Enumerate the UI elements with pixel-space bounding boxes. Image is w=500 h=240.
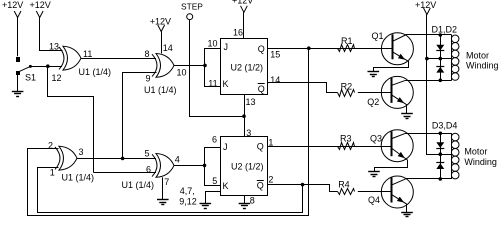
- svg-text:5: 5: [145, 148, 150, 158]
- node A junction: [46, 64, 50, 68]
- svg-text:STEP: STEP: [181, 2, 203, 12]
- svg-text:2: 2: [268, 175, 273, 185]
- wire Q3 collector: [406, 133, 452, 135]
- svg-text:3: 3: [79, 147, 84, 157]
- node junction U2 J/K 1: [203, 64, 207, 68]
- wire: [205, 166, 221, 186]
- wire: [77, 158, 156, 160]
- resistor R1: [338, 45, 355, 52]
- svg-text:4: 4: [175, 155, 180, 165]
- flip-flop U2 (1/2) first half: [221, 39, 268, 95]
- wire: [174, 65, 205, 67]
- svg-text:16: 16: [233, 28, 243, 38]
- svg-text:U1 (1/4): U1 (1/4): [122, 180, 155, 190]
- ground (U2 pins 4,7,9,12): [206, 192, 221, 204]
- svg-text:U1 (1/4): U1 (1/4): [79, 67, 112, 77]
- wire: [358, 48, 392, 50]
- wire feedback Q2bar to gate pin 1: [38, 168, 303, 213]
- svg-text:Q4: Q4: [368, 195, 380, 205]
- svg-text:U2 (1/2): U2 (1/2): [231, 62, 264, 72]
- wire: [243, 12, 245, 38]
- svg-text:Q: Q: [257, 141, 264, 151]
- wire: [358, 146, 392, 148]
- node junctions diode col 2: [439, 132, 443, 136]
- node junction winding1 tap: [425, 57, 429, 61]
- wire: [205, 148, 221, 166]
- resistor R3: [338, 143, 355, 150]
- svg-text:R2: R2: [341, 81, 353, 91]
- svg-text:10: 10: [177, 67, 187, 77]
- wire: [174, 165, 205, 167]
- svg-text:Winding: Winding: [464, 157, 497, 167]
- svg-text:K: K: [223, 79, 229, 89]
- ground (Q1): [368, 71, 380, 73]
- node junction gate3 out: [121, 157, 125, 161]
- svg-text:U1 (1/4): U1 (1/4): [144, 85, 177, 95]
- svg-text:U1 (1/4): U1 (1/4): [62, 173, 95, 183]
- ground (Q4): [401, 212, 413, 214]
- wire Qbar pin2 line: [268, 185, 338, 192]
- xor gate U1 (1/4) pins 13,12 out 11: [63, 46, 81, 70]
- svg-text:11: 11: [208, 78, 217, 88]
- motor winding 2 coil: [451, 133, 453, 179]
- wire Q2 emitter to ground: [406, 105, 408, 114]
- wire: [427, 15, 452, 155]
- wire: [30, 66, 47, 68]
- svg-text:7: 7: [164, 177, 169, 187]
- resistor R4: [338, 189, 355, 195]
- svg-text:D1,D2: D1,D2: [432, 25, 458, 35]
- svg-text:14: 14: [270, 75, 280, 85]
- wire feedback Q1 to gate pin 2: [28, 49, 309, 216]
- xor gate U1 (1/4) pins 8,9 out 10: [156, 54, 174, 78]
- wire: [358, 191, 392, 193]
- resistor R2: [338, 90, 355, 97]
- svg-text:Q: Q: [258, 44, 265, 54]
- svg-text:9: 9: [146, 74, 151, 84]
- svg-text:14: 14: [163, 43, 173, 53]
- wire pin 13 to pin 3: [244, 95, 246, 137]
- wire: [94, 172, 157, 174]
- wire: [205, 49, 221, 66]
- svg-text:R1: R1: [341, 36, 353, 46]
- diode D1: [436, 45, 444, 51]
- svg-text:+12V: +12V: [415, 0, 436, 10]
- wire: [48, 66, 62, 68]
- svg-text:R4: R4: [338, 179, 350, 189]
- svg-text:Q: Q: [257, 181, 264, 191]
- svg-text:+12V: +12V: [2, 0, 23, 10]
- diode D3: [436, 142, 444, 148]
- svg-text:J: J: [223, 142, 228, 152]
- wire: [205, 66, 221, 87]
- wire winding1 tap: [427, 58, 452, 60]
- xor gate U1 (1/4) pins 5,6 out 4: [156, 154, 174, 178]
- svg-text:1: 1: [50, 168, 55, 178]
- wire Q4 collector: [406, 178, 452, 180]
- wire: [40, 18, 63, 51]
- svg-text:10: 10: [208, 39, 218, 49]
- diode D4: [436, 162, 444, 164]
- wire diode column 2: [440, 133, 442, 179]
- ground (Q2): [401, 113, 413, 115]
- svg-text:11: 11: [83, 49, 92, 59]
- wire Q4 emitter to ground: [406, 204, 408, 212]
- svg-text:Q2: Q2: [367, 97, 379, 107]
- motor winding 1 coil: [451, 35, 453, 80]
- svg-text:U2 (1/2): U2 (1/2): [231, 161, 264, 171]
- wire: [123, 73, 157, 159]
- svg-text:9,12: 9,12: [179, 196, 197, 206]
- wire: [190, 20, 245, 117]
- svg-text:+12V: +12V: [30, 0, 51, 10]
- wire Q1 collector: [406, 34, 452, 36]
- node junctions diode col 1: [439, 33, 443, 37]
- svg-text:S1: S1: [25, 73, 36, 83]
- svg-text:Winding: Winding: [466, 61, 499, 71]
- svg-text:R3: R3: [340, 133, 352, 143]
- svg-text:Q: Q: [258, 84, 265, 94]
- node junction feedback Q1: [307, 46, 311, 50]
- ground (S1): [17, 75, 19, 92]
- svg-text:+12V: +12V: [232, 0, 253, 5]
- svg-text:8: 8: [145, 49, 150, 59]
- svg-text:Q1: Q1: [372, 31, 384, 41]
- svg-text:5: 5: [212, 176, 217, 186]
- svg-text:8: 8: [250, 195, 255, 205]
- wire: [161, 32, 163, 54]
- xor gate U1 (1/4) pins 2,1 out 3: [59, 146, 77, 170]
- svg-text:12: 12: [52, 73, 62, 83]
- wire diode column 1: [440, 35, 442, 80]
- node junction U2 J/K 2: [203, 164, 207, 168]
- svg-text:Motor: Motor: [466, 50, 489, 60]
- node junction clock: [242, 114, 246, 118]
- svg-text:4,7,: 4,7,: [180, 186, 195, 196]
- wire: [81, 58, 156, 60]
- wire Q pin15 line: [268, 48, 393, 50]
- wire Qbar pin14 line: [268, 83, 338, 93]
- svg-text:Motor: Motor: [464, 146, 487, 156]
- svg-text:6: 6: [212, 134, 217, 144]
- svg-text:6: 6: [146, 165, 151, 175]
- svg-text:3: 3: [246, 128, 251, 138]
- ground (U1 pin 7): [162, 177, 164, 199]
- node junction feedback Q2bar: [301, 183, 305, 187]
- svg-text:K: K: [223, 181, 229, 191]
- diode D2: [436, 66, 444, 68]
- wire Q1 emitter to ground: [374, 62, 409, 72]
- ground (Q3): [368, 171, 380, 173]
- ground (U2 pin 8): [244, 195, 246, 203]
- flip-flop U2 (1/2) second half: [221, 137, 268, 196]
- svg-text:Q3: Q3: [370, 133, 382, 143]
- svg-text:+12V: +12V: [150, 16, 171, 26]
- svg-text:13: 13: [246, 97, 256, 107]
- wire: [17, 18, 19, 57]
- wire Q3 emitter to ground: [375, 161, 408, 172]
- svg-text:J: J: [224, 42, 229, 52]
- wire Q2 pin1 line: [268, 146, 393, 148]
- switch S1: [17, 58, 20, 62]
- wire: [358, 92, 392, 94]
- wire: [48, 67, 94, 173]
- svg-text:D3,D4: D3,D4: [432, 121, 458, 131]
- svg-text:1: 1: [268, 137, 273, 147]
- wire Q2 collector: [406, 80, 452, 82]
- svg-text:15: 15: [270, 50, 280, 60]
- svg-text:13: 13: [49, 41, 59, 51]
